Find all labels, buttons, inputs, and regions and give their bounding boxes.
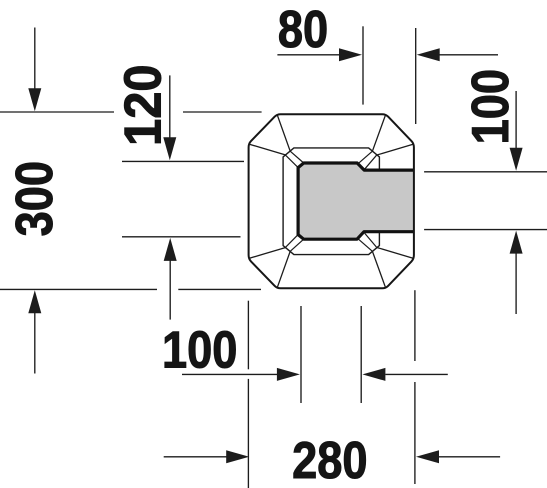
svg-text:280: 280 — [292, 432, 367, 488]
svg-text:80: 80 — [278, 1, 328, 59]
svg-text:100: 100 — [462, 69, 520, 144]
svg-text:120: 120 — [113, 64, 172, 146]
svg-text:300: 300 — [6, 161, 64, 236]
svg-text:100: 100 — [162, 322, 237, 380]
